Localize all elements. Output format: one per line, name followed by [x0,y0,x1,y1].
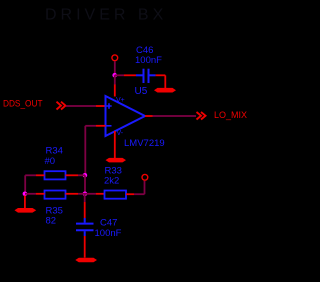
node V+ junction dot [112,73,117,78]
pin R34 right [66,174,79,176]
wire corner down to ground node [24,175,26,194]
wire junction down to C47 [84,194,86,202]
svg-text:DRIVER BX: DRIVER BX [45,7,167,24]
pin C46 right [156,74,166,76]
node threshold junction dot (upper) [83,173,88,178]
wire corner up to terminal [144,181,146,194]
pin R33 right [126,193,134,195]
node divider junction dot (lower) [83,192,88,197]
port DDS_OUT chevron [57,102,66,110]
pin R34 left [36,174,45,176]
terminal circle (R33 top) [142,174,148,180]
wire R34 left to corner [25,174,36,176]
ground stem (C46) [164,75,166,88]
ground (divider) [15,208,37,213]
wire DDS_OUT to U5 +in [66,105,96,107]
wire -in feedback vertical [84,126,86,176]
op-amp U1 (U5 LMV7219) triangle [106,96,146,136]
capacitor C47 [76,218,94,236]
pin R35 right [66,193,79,195]
pin R33 left [96,193,105,195]
pin U5 V+ [114,85,116,97]
svg-text:LO_MIX: LO_MIX [214,110,247,120]
wire -in feedback horizontal [85,125,96,127]
resistor R34 [45,171,66,179]
pin U5 +in [96,105,106,107]
port LO_MIX chevron [197,112,206,120]
svg-text:2k2: 2k2 [104,176,119,187]
pin C47 top [84,202,86,218]
svg-text:100nF: 100nF [95,228,122,239]
svg-text:#0: #0 [45,156,56,167]
ground (C47) [75,258,97,263]
port DDS_OUT label [3,99,43,109]
ground (C46) [154,88,176,93]
pin U5 V- [114,131,116,142]
wire U5 output to LO_MIX [153,115,197,117]
wire node V+ down to U5 [114,75,116,85]
ground stem (U5 V-) [114,142,116,158]
svg-text:100nF: 100nF [135,55,162,66]
ground (U5 V-) [106,158,127,163]
svg-text:V-: V- [117,130,124,137]
pin U5 -in [96,125,106,127]
ground stem (divider) [24,196,26,209]
svg-text:82: 82 [46,216,57,227]
wire R35 left to ground node [25,193,36,195]
resistor R35 [45,191,66,199]
power terminal circle (V+ tap) [112,55,118,61]
faint sheet title text [45,7,167,24]
pin R35 left [36,193,45,195]
op-amp plus input mark [106,103,111,108]
capacitor C46 [136,69,156,83]
node ground junction dot [23,192,28,197]
resistor R33 [105,191,127,199]
svg-text:V+: V+ [116,97,125,104]
wire node V+ to C46 [115,74,124,76]
pin C47 bottom / ground stem [84,236,86,258]
wire R35 right to junction [78,193,85,195]
op-amp minus input mark [107,125,112,127]
svg-text:LMV7219: LMV7219 [124,138,165,149]
pin U5 output [145,115,153,117]
wire junction to R33 [85,193,96,195]
wire R33 right to corner [134,193,145,195]
svg-text:DDS_OUT: DDS_OUT [3,99,43,109]
wire circle to node V+ [114,61,116,75]
wire between threshold junctions [84,175,86,194]
svg-text:U5: U5 [135,86,148,97]
pin C46 left [124,74,136,76]
wire R34 right to junction [78,174,85,176]
